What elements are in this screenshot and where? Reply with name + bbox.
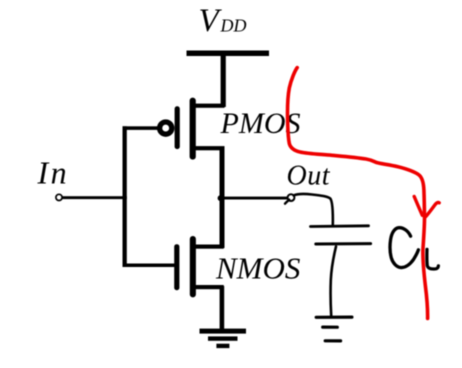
wire In — [62, 196, 127, 199]
transistor NMOS gate wire — [123, 264, 175, 268]
VDD power rail — [187, 51, 270, 57]
transistor NMOS gate bar — [174, 244, 179, 290]
label CL handwritten C — [390, 228, 418, 268]
label VDD — [199, 3, 247, 39]
wire Out to capacitor — [294, 194, 333, 226]
node In terminal — [56, 194, 62, 200]
transistor NMOS source wire — [192, 285, 224, 289]
svg-text:V: V — [199, 3, 223, 39]
transistor PMOS gate wire — [123, 126, 158, 130]
wire output bus — [220, 147, 225, 248]
wire capacitor to ground — [331, 247, 336, 316]
transistor PMOS gate bar — [175, 106, 180, 149]
red annotation main stroke — [288, 68, 428, 319]
red annotation arrowhead right barb — [426, 203, 440, 217]
transistor PMOS drain wire — [192, 146, 225, 150]
transistor PMOS source wire — [192, 104, 225, 108]
transistor NMOS channel bar — [190, 236, 196, 297]
wire Out — [223, 197, 288, 200]
transistor PMOS channel bar — [190, 98, 196, 160]
capacitor CL top plate — [311, 224, 369, 227]
ground main — [200, 329, 247, 349]
svg-text:DD: DD — [220, 15, 247, 35]
red annotation arrowhead left barb — [414, 197, 422, 216]
ground capacitor — [316, 317, 352, 341]
svg-text:In: In — [37, 155, 70, 191]
wire input bus — [123, 126, 127, 266]
svg-text:Out: Out — [287, 160, 331, 191]
capacitor CL bottom plate — [316, 242, 371, 245]
wire VDD stem — [221, 55, 226, 107]
transistor NMOS drain wire — [192, 245, 224, 249]
node output junction — [218, 195, 224, 201]
label CL handwritten L subscript — [427, 249, 439, 269]
wire NMOS source to ground — [220, 286, 225, 331]
transistor PMOS gate bubble — [160, 122, 172, 134]
svg-text:NMOS: NMOS — [215, 251, 300, 286]
node Out terminal — [285, 194, 294, 203]
